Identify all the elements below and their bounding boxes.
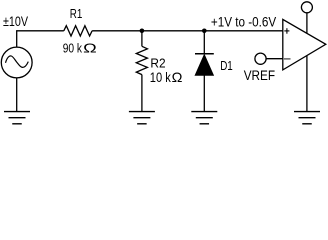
svg-text:VREF: VREF <box>244 68 275 83</box>
wire: VREF to op-amp - input <box>266 58 283 60</box>
resistor R1 <box>64 26 92 36</box>
positive supply terminal circle <box>301 2 312 13</box>
VREF terminal circle <box>255 53 266 64</box>
node A junction dot <box>140 29 145 34</box>
svg-text:R1: R1 <box>70 6 83 21</box>
wire: R2 to ground <box>141 75 143 112</box>
wire: node A down to R2 <box>141 31 143 47</box>
ground (D1) <box>191 112 217 124</box>
ground (R2) <box>129 112 155 124</box>
svg-text:+1V to -0.6V: +1V to -0.6V <box>211 14 276 29</box>
wire: D1 anode to ground <box>203 75 205 111</box>
wire: op-amp top power pin <box>306 13 308 34</box>
wire: source bottom to ground <box>16 78 18 112</box>
svg-text:90 k: 90 k <box>63 40 83 55</box>
svg-text:10 k: 10 k <box>150 70 171 85</box>
ground (left) <box>4 112 30 124</box>
svg-text:Ω: Ω <box>83 40 97 55</box>
wire: R1 to op-amp + input <box>92 30 283 32</box>
node B junction dot <box>202 29 207 34</box>
wire: node B down to D1 cathode <box>203 31 205 53</box>
op-amp + input symbol <box>284 28 289 34</box>
resistor R2 <box>136 46 147 74</box>
voltage source V1 <box>1 47 32 78</box>
svg-text:±10V: ±10V <box>3 14 28 30</box>
svg-text:Ω: Ω <box>172 69 183 85</box>
wire: source top to corner then right to R1 <box>17 31 64 47</box>
op-amp - input symbol <box>284 58 291 60</box>
op-amp U1 <box>283 19 326 70</box>
ground (op-amp) <box>294 112 320 124</box>
wire: op-amp bottom power pin to ground <box>306 56 308 112</box>
svg-text:R2: R2 <box>150 55 165 70</box>
svg-text:D1: D1 <box>220 58 233 73</box>
diode D1 <box>195 54 214 76</box>
